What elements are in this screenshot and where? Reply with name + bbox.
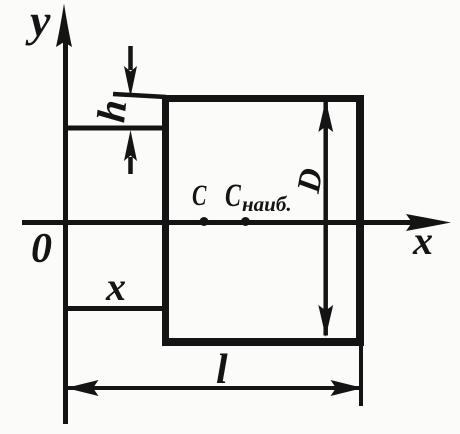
svg-text:x: x <box>105 264 126 309</box>
l dimension left arrowhead <box>66 380 99 396</box>
y-axis line <box>63 40 68 424</box>
point C naib dot <box>241 217 250 226</box>
rectangle top edge <box>162 95 364 102</box>
h dimension lower arrowhead (up) <box>124 130 137 161</box>
rectangle bottom edge <box>162 338 364 346</box>
point C dot <box>200 217 209 226</box>
svg-text:0: 0 <box>31 226 52 272</box>
D dimension top arrowhead (up) <box>318 100 333 132</box>
top edge extension line (for h) <box>113 94 166 97</box>
h dimension lower line <box>128 157 133 174</box>
h dimension upper line <box>128 46 133 70</box>
D dimension line <box>323 101 328 336</box>
l dimension right arrowhead <box>331 380 364 396</box>
svg-text:C: C <box>192 179 207 212</box>
step reference line x (lower, from y-axis to rectangle) <box>63 306 168 311</box>
svg-text:C: C <box>225 177 242 214</box>
rectangle left edge <box>162 95 169 346</box>
rectangle right edge <box>356 95 364 346</box>
right edge extension line (below rectangle) <box>359 346 363 406</box>
svg-text:l: l <box>216 347 228 393</box>
h dimension upper arrowhead (down) <box>124 66 137 97</box>
svg-text:x: x <box>412 218 433 263</box>
x-axis arrowhead <box>406 214 451 231</box>
svg-text:наиб.: наиб. <box>242 192 292 216</box>
y-axis arrowhead <box>56 4 72 48</box>
svg-text:h: h <box>88 98 135 125</box>
step reference line h (upper, from y-axis to rectangle) <box>63 126 168 131</box>
D dimension bottom arrowhead (down) <box>318 305 333 337</box>
l dimension line <box>67 386 362 390</box>
x-axis line <box>22 220 412 225</box>
